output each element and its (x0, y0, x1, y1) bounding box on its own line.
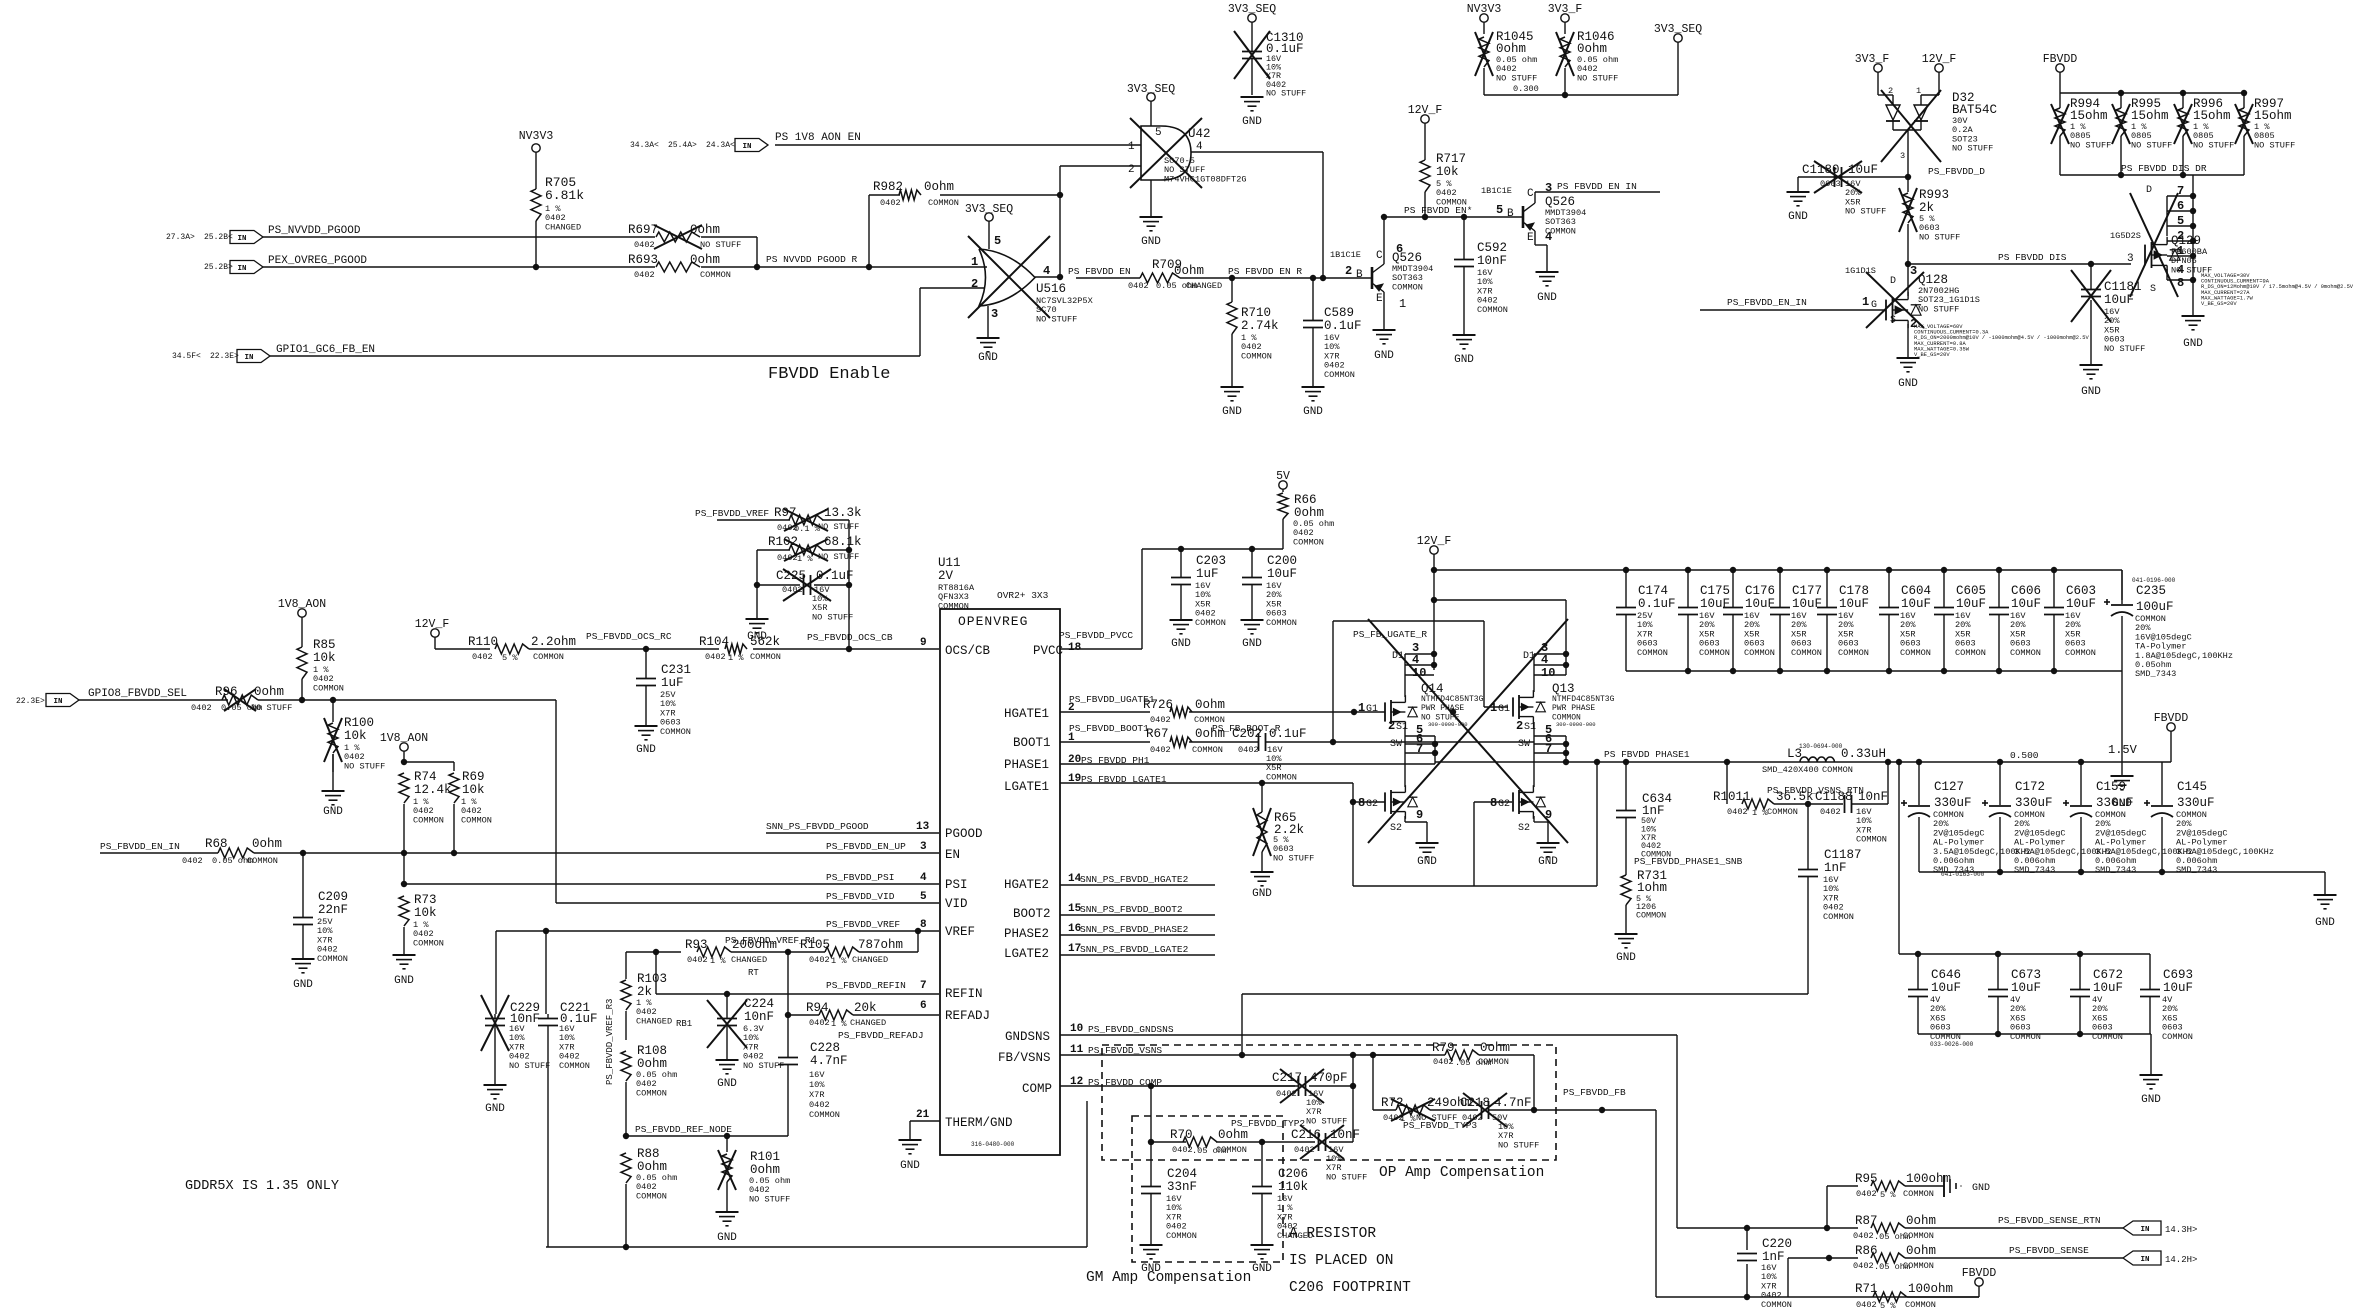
svg-text:PS_FBVDD_FB: PS_FBVDD_FB (1563, 1087, 1626, 1098)
node PS_FBVDD_EN* (1381, 205, 1523, 220)
svg-text:1G1D1S: 1G1D1S (1845, 266, 1876, 276)
svg-text:RT: RT (748, 968, 759, 978)
wire (701, 237, 760, 270)
svg-text:34.5F<: 34.5F< (172, 352, 201, 361)
svg-text:R85: R85 (313, 638, 336, 652)
IN connector PS_1V8_AON_EN (630, 132, 861, 152)
svg-text:SW: SW (1518, 739, 1530, 750)
svg-text:27.3A>: 27.3A> (166, 233, 195, 242)
svg-text:22nF: 22nF (318, 903, 348, 917)
svg-text:2k: 2k (1919, 201, 1934, 215)
svg-text:10uF: 10uF (2093, 981, 2123, 995)
svg-text:10nF: 10nF (1858, 790, 1888, 804)
svg-text:NO STUFF: NO STUFF (749, 1194, 790, 1204)
svg-text:GND: GND (1616, 952, 1636, 964)
svg-text:COMMON: COMMON (636, 1191, 667, 1201)
capacitor C634 (1616, 762, 1743, 869)
svg-text:R110: R110 (468, 635, 498, 649)
svg-text:3: 3 (920, 841, 927, 853)
svg-text:1 %: 1 % (710, 956, 726, 966)
wire (258, 697, 939, 903)
svg-text:HGATE2: HGATE2 (1004, 878, 1049, 892)
svg-text:22.3E>: 22.3E> (16, 697, 45, 706)
svg-text:BOOT2: BOOT2 (1013, 907, 1051, 921)
svg-text:0603: 0603 (1820, 179, 1841, 189)
svg-text:R94: R94 (806, 1001, 829, 1015)
svg-text:3V3_SEQ: 3V3_SEQ (1654, 23, 1702, 36)
svg-text:10: 10 (1070, 1023, 1083, 1035)
resistor R66 / power 5V (1276, 470, 1334, 549)
svg-text:25.2B>: 25.2B> (204, 263, 233, 272)
svg-text:0ohm: 0ohm (750, 1163, 780, 1177)
resistor R693 (628, 253, 731, 280)
svg-text:7: 7 (1416, 742, 1423, 756)
power flag 12V_F (stage) (1417, 535, 1452, 670)
svg-text:C228: C228 (810, 1041, 840, 1055)
svg-text:GND: GND (2081, 386, 2101, 398)
svg-text:5V: 5V (1276, 470, 1290, 483)
svg-text:C603: C603 (2066, 584, 2096, 598)
svg-text:C693: C693 (2163, 968, 2193, 982)
svg-text:COMMON: COMMON (636, 1088, 667, 1098)
svg-text:68.1k: 68.1k (824, 535, 862, 549)
svg-text:C159: C159 (2096, 780, 2126, 794)
svg-text:PS_FBVDD_VID: PS_FBVDD_VID (826, 891, 895, 902)
capacitor C225 (no stuff) (746, 569, 854, 643)
svg-text:2k: 2k (637, 985, 652, 999)
svg-text:7: 7 (2177, 184, 2184, 198)
svg-text:E: E (1376, 293, 1383, 305)
svg-text:C217: C217 (1272, 1071, 1302, 1085)
svg-text:GND: GND (1141, 236, 1161, 248)
svg-text:V_BE_GS=20V: V_BE_GS=20V (2201, 301, 2237, 307)
svg-text:Q526: Q526 (1392, 251, 1422, 265)
svg-text:CHANGED: CHANGED (731, 955, 767, 965)
svg-text:NO STUFF: NO STUFF (812, 612, 853, 622)
svg-text:14.3H>: 14.3H> (2165, 1225, 2197, 1235)
svg-text:10nF: 10nF (1330, 1128, 1360, 1142)
svg-text:NO STUFF: NO STUFF (1919, 232, 1960, 242)
svg-text:GDDR5X IS 1.35 ONLY: GDDR5X IS 1.35 ONLY (185, 1179, 339, 1194)
net PS_FBVDD_VREF wire (496, 919, 939, 1014)
capacitor C200 (1241, 549, 1298, 650)
svg-text:5: 5 (1155, 127, 1162, 139)
svg-text:PS_FBVDD_EN_UP: PS_FBVDD_EN_UP (826, 841, 906, 852)
svg-text:0402: 0402 (1853, 1261, 1874, 1271)
capacitor C605 (1934, 570, 1986, 671)
svg-text:10uF: 10uF (2011, 597, 2041, 611)
svg-text:COMMON: COMMON (1478, 1057, 1509, 1067)
svg-text:COMMON: COMMON (1241, 351, 1272, 361)
svg-text:3V3_F: 3V3_F (1855, 53, 1890, 66)
svg-text:0ohm: 0ohm (1218, 1128, 1248, 1142)
capacitor C145 (polarized) (2144, 762, 2274, 875)
resistor R72 (no stuff) / capacitor C218 (no stuff) (1373, 1055, 1605, 1150)
svg-text:10: 10 (1412, 666, 1426, 680)
svg-text:15ohm: 15ohm (2131, 109, 2169, 123)
net PS_FBVDD_REFIN (656, 980, 939, 997)
svg-text:SNN_PS_FBVDD_HGATE2: SNN_PS_FBVDD_HGATE2 (1080, 874, 1189, 885)
capacitor C228 (778, 1015, 848, 1136)
svg-text:10nF: 10nF (744, 1010, 774, 1024)
svg-text:PS_FB_UGATE_R: PS_FB_UGATE_R (1353, 629, 1427, 640)
node PS_FBVDD_DIS (1905, 252, 2134, 267)
svg-text:18: 18 (1068, 642, 1082, 654)
svg-text:0.1uF: 0.1uF (1638, 597, 1676, 611)
svg-text:0402: 0402 (1462, 1113, 1483, 1123)
resistor R96 (no stuff) (191, 685, 292, 713)
svg-text:PS FBVDD EN*: PS FBVDD EN* (1404, 205, 1472, 216)
svg-text:SMD_7343: SMD_7343 (2176, 865, 2217, 875)
svg-text:0402: 0402 (782, 585, 803, 595)
svg-text:130-0694-000: 130-0694-000 (1799, 743, 1843, 750)
capacitor C672 (2070, 954, 2123, 1042)
mosfet Q128 (no stuff) (1700, 264, 2089, 390)
capacitor C1180 (no stuff) (1787, 161, 1986, 223)
svg-text:12V_F: 12V_F (415, 618, 450, 631)
capacitor C216 (no stuff) (1262, 1125, 1367, 1182)
svg-text:COMMON: COMMON (1900, 648, 1931, 658)
resistor R1046 (no stuff) (1548, 3, 1619, 95)
resistor R101 (no stuff) (716, 1136, 791, 1244)
svg-text:GND: GND (1417, 856, 1437, 868)
svg-text:COMMON: COMMON (660, 727, 691, 737)
svg-text:PSI: PSI (945, 878, 968, 892)
svg-text:NO STUFF: NO STUFF (1498, 1140, 1539, 1150)
svg-text:1nF: 1nF (1762, 1250, 1785, 1264)
svg-text:6.81k: 6.81k (545, 188, 584, 203)
svg-text:0.33uH: 0.33uH (1841, 747, 1886, 761)
svg-text:787ohm: 787ohm (858, 938, 903, 952)
net PS_FB_UGATE_R wire (1333, 621, 1508, 742)
svg-text:SNN_PS_FBVDD_BOOT2: SNN_PS_FBVDD_BOOT2 (1080, 904, 1183, 915)
svg-text:D1: D1 (1523, 651, 1535, 662)
label GM Amp Compensation (1086, 1270, 1251, 1286)
svg-text:PS_FBVDD_OCS_CB: PS_FBVDD_OCS_CB (807, 632, 893, 643)
svg-text:R103: R103 (637, 972, 667, 986)
svg-text:10uF: 10uF (2104, 293, 2134, 307)
svg-text:1 %: 1 % (728, 653, 744, 663)
capacitor C646 (1908, 954, 1961, 1042)
svg-text:13: 13 (916, 821, 930, 833)
svg-text:0402: 0402 (1150, 715, 1171, 725)
svg-text:12V_F: 12V_F (1417, 535, 1452, 548)
svg-text:0ohm: 0ohm (1906, 1214, 1936, 1228)
svg-text:5 %: 5 % (502, 653, 518, 663)
IN connector GPIO1_GC6_FB_EN (172, 344, 375, 363)
svg-text:0.1uF: 0.1uF (1324, 319, 1362, 333)
svg-text:4: 4 (1541, 653, 1548, 667)
svg-text:1uF: 1uF (661, 676, 684, 690)
wire U42 pin1 (775, 144, 1141, 146)
svg-text:PS_FBVDD_OCS_RC: PS_FBVDD_OCS_RC (586, 631, 672, 642)
note A RESISTOR IS PLACED ON C206 FOOTPRINT (1289, 1226, 1411, 1296)
svg-text:IN: IN (742, 143, 751, 151)
svg-text:G2: G2 (1366, 799, 1378, 810)
svg-text:SNN_PS_FBVDD_LGATE2: SNN_PS_FBVDD_LGATE2 (1080, 944, 1189, 955)
svg-text:X7R: X7R (809, 1090, 824, 1100)
svg-text:C127: C127 (1934, 780, 1964, 794)
capacitor C203 (1170, 549, 1227, 650)
svg-text:C172: C172 (2015, 780, 2045, 794)
svg-text:1: 1 (1358, 701, 1365, 715)
svg-text:S: S (2150, 284, 2156, 295)
svg-text:PS_FBVDD_REFIN: PS_FBVDD_REFIN (826, 980, 906, 991)
svg-text:PS_FBVDD_REF_NODE: PS_FBVDD_REF_NODE (635, 1124, 732, 1135)
svg-text:PS_FBVDD_D: PS_FBVDD_D (1928, 166, 1985, 177)
svg-text:HGATE1: HGATE1 (1004, 707, 1049, 721)
IN connector PS_NVVDD_PGOOD (166, 225, 361, 244)
pin 21 THERM/GND ground (899, 1109, 941, 1172)
svg-text:R717: R717 (1436, 152, 1466, 166)
transistor Q526 A (1330, 217, 1433, 362)
resistor R87 / net PS_FBVDD_SENSE_RTN (1677, 1214, 2197, 1242)
svg-text:20k: 20k (854, 1001, 877, 1015)
svg-text:COMMON: COMMON (1744, 648, 1775, 658)
svg-text:7: 7 (1545, 742, 1552, 756)
diode D32 BAT54C (no stuff) (1855, 53, 1997, 177)
svg-text:GND: GND (2141, 1094, 2161, 1106)
capacitor C176 (1723, 570, 1775, 671)
wire FB to sense rail (1656, 1294, 1979, 1300)
svg-text:COMMON: COMMON (1324, 370, 1355, 380)
svg-text:D: D (1890, 276, 1896, 287)
capacitor C1188 (1815, 762, 1888, 845)
svg-text:0ohm: 0ohm (690, 223, 720, 237)
svg-text:S2: S2 (1518, 823, 1530, 834)
svg-text:0402: 0402 (1172, 1145, 1193, 1155)
svg-text:0402: 0402 (1856, 1189, 1877, 1199)
svg-text:1B1C1E: 1B1C1E (1330, 250, 1361, 260)
svg-text:SNN_PS_FBVDD_PHASE2: SNN_PS_FBVDD_PHASE2 (1080, 924, 1189, 935)
svg-text:4.7nF: 4.7nF (1494, 1096, 1532, 1110)
svg-text:GND: GND (636, 744, 656, 756)
svg-text:COMMON: COMMON (1905, 1300, 1936, 1310)
resistor R79 (1373, 1041, 1537, 1113)
svg-text:C204: C204 (1167, 1167, 1197, 1181)
svg-text:NO STUFF: NO STUFF (344, 761, 385, 771)
svg-text:GND: GND (323, 806, 343, 818)
svg-text:330uF: 330uF (1934, 796, 1972, 810)
svg-text:10uF: 10uF (1745, 597, 1775, 611)
svg-text:PS_FBVDD_REFADJ: PS_FBVDD_REFADJ (838, 1030, 924, 1041)
resistor R997 (no stuff) (2235, 97, 2295, 150)
svg-text:10uF: 10uF (2066, 597, 2096, 611)
svg-text:IN: IN (2140, 1256, 2149, 1264)
svg-text:COMMON: COMMON (559, 1061, 590, 1071)
svg-text:PWR PHASE: PWR PHASE (1421, 704, 1464, 713)
bottom VREF rail (546, 1101, 1087, 1250)
svg-text:5: 5 (2177, 214, 2184, 228)
svg-text:PWR PHASE: PWR PHASE (1552, 704, 1595, 713)
svg-text:GND: GND (1141, 1263, 1161, 1275)
svg-text:NO STUFF: NO STUFF (700, 240, 741, 250)
dashed box OP Amp Compensation (1102, 1045, 1556, 1160)
svg-text:0.1uF: 0.1uF (1269, 727, 1307, 741)
svg-text:3: 3 (991, 307, 998, 321)
svg-text:NO STUFF: NO STUFF (1577, 73, 1618, 83)
svg-text:SNN_PS_FBVDD_PGOOD: SNN_PS_FBVDD_PGOOD (766, 821, 869, 832)
svg-text:COMMON: COMMON (1637, 648, 1668, 658)
svg-text:041-0163-000: 041-0163-000 (1941, 871, 1985, 878)
svg-text:PS_FBVDD_GNDSNS: PS_FBVDD_GNDSNS (1088, 1024, 1174, 1035)
svg-text:PHASE1: PHASE1 (1004, 758, 1049, 772)
svg-text:C673: C673 (2011, 968, 2041, 982)
svg-text:C176: C176 (1745, 584, 1775, 598)
svg-text:C604: C604 (1901, 584, 1931, 598)
svg-text:10uF: 10uF (1931, 981, 1961, 995)
svg-text:4: 4 (1196, 141, 1203, 153)
svg-text:C220: C220 (1762, 1237, 1792, 1251)
svg-text:IN: IN (244, 354, 253, 362)
svg-text:COMMON: COMMON (700, 270, 731, 280)
svg-text:R710: R710 (1241, 306, 1271, 320)
svg-text:EN: EN (945, 848, 960, 862)
svg-text:SMD_7343: SMD_7343 (2135, 669, 2176, 679)
svg-text:PS FBVDD DIS DR: PS FBVDD DIS DR (2121, 163, 2207, 174)
power flag FBVDD (top) (2043, 53, 2247, 108)
net PS_FBVDD_VREF / resistor R97 (no stuff) (695, 506, 862, 649)
svg-text:562k: 562k (750, 635, 780, 649)
svg-text:PEX_OVREG_PGOOD: PEX_OVREG_PGOOD (268, 255, 367, 267)
power flag 1V8_AON / resistor R85 (278, 598, 344, 700)
svg-text:NO STUFF: NO STUFF (743, 1061, 784, 1071)
svg-text:1: 1 (1490, 701, 1497, 715)
svg-text:R79: R79 (1432, 1041, 1455, 1055)
svg-text:R726: R726 (1143, 698, 1173, 712)
svg-text:0.1 %: 0.1 % (794, 524, 821, 534)
svg-text:COMP: COMP (1022, 1082, 1052, 1096)
svg-text:033-0026-000: 033-0026-000 (1930, 1041, 1974, 1048)
svg-text:0402: 0402 (1820, 807, 1841, 817)
svg-text:COMMON: COMMON (1856, 835, 1887, 845)
capacitor C221 (538, 1001, 598, 1247)
svg-text:8: 8 (1490, 796, 1497, 810)
svg-text:NO STUFF: NO STUFF (2131, 140, 2172, 150)
ground (U516) (977, 338, 1000, 364)
svg-text:1uF: 1uF (1196, 567, 1219, 581)
resistor R731 (1615, 869, 1668, 964)
svg-text:C175: C175 (1700, 584, 1730, 598)
svg-text:PS FBVDD EN IN: PS FBVDD EN IN (1557, 181, 1637, 192)
svg-text:C206: C206 (1278, 1167, 1308, 1181)
resistor R95 (1827, 1172, 1951, 1228)
svg-text:10k: 10k (1436, 165, 1459, 179)
svg-text:GND: GND (1222, 406, 1242, 418)
svg-text:Q129: Q129 (2171, 234, 2201, 248)
svg-text:S1: S1 (1524, 722, 1536, 733)
svg-text:3V3_SEQ: 3V3_SEQ (1228, 3, 1276, 16)
svg-text:CHANGED: CHANGED (1277, 1231, 1313, 1241)
svg-text:C224: C224 (744, 997, 774, 1011)
capacitor C229 (no stuff) (481, 995, 550, 1115)
svg-text:COMMON: COMMON (809, 1110, 840, 1120)
svg-text:OPENVREG: OPENVREG (958, 614, 1028, 629)
svg-text:25.2B<: 25.2B< (204, 233, 233, 242)
svg-text:C231: C231 (661, 663, 691, 677)
svg-text:3V3_SEQ: 3V3_SEQ (965, 203, 1013, 216)
svg-text:B: B (1356, 269, 1363, 281)
svg-text:COMMON: COMMON (413, 815, 444, 825)
svg-text:0ohm: 0ohm (1496, 42, 1526, 56)
svg-text:NO STUFF: NO STUFF (818, 522, 859, 532)
svg-text:C606: C606 (2011, 584, 2041, 598)
svg-text:0402: 0402 (1853, 1231, 1874, 1241)
svg-text:R693: R693 (628, 253, 658, 267)
svg-text:COMMON: COMMON (1761, 1300, 1792, 1310)
svg-text:COMMON: COMMON (928, 198, 959, 208)
svg-text:0.500: 0.500 (2010, 750, 2039, 761)
capacitor C231 (635, 649, 692, 756)
svg-text:9: 9 (1545, 808, 1552, 822)
svg-text:R73: R73 (414, 893, 437, 907)
svg-text:R70: R70 (1170, 1128, 1193, 1142)
capacitor C604 (1879, 570, 1931, 671)
svg-text:25.4A>: 25.4A> (668, 141, 697, 150)
capacitor C1181 (no stuff) (2071, 264, 2145, 398)
mosfet Q129 (no stuff) (2110, 184, 2354, 350)
vertical label PS_FBVDD_VREF_R3 (605, 999, 615, 1085)
wire 12V_F to Q13 drain (1434, 600, 1569, 675)
svg-text:FB/VSNS: FB/VSNS (998, 1051, 1051, 1065)
svg-text:GND: GND (1242, 638, 1262, 650)
power flag FBVDD (output) (2154, 712, 2189, 762)
svg-text:0402: 0402 (472, 652, 493, 662)
svg-text:14.2H>: 14.2H> (2165, 1255, 2197, 1265)
svg-text:0402: 0402 (1727, 807, 1748, 817)
svg-text:NV3V3: NV3V3 (1467, 3, 1502, 16)
svg-text:VREF: VREF (945, 925, 975, 939)
svg-text:2: 2 (1888, 86, 1893, 96)
net PS_FBVDD_PSI (826, 872, 927, 884)
svg-text:R101: R101 (750, 1150, 780, 1164)
svg-text:0402: 0402 (1856, 1300, 1877, 1310)
svg-text:COMMON: COMMON (2010, 648, 2041, 658)
svg-text:PS NVVDD PGOOD R: PS NVVDD PGOOD R (766, 254, 858, 265)
svg-text:C202: C202 (1232, 727, 1262, 741)
svg-text:COMMON: COMMON (1195, 618, 1226, 628)
svg-text:9: 9 (920, 637, 927, 649)
svg-text:GND: GND (900, 1160, 920, 1172)
svg-text:300-0900-000: 300-0900-000 (1556, 721, 1596, 728)
svg-text:2: 2 (1345, 264, 1352, 278)
svg-text:COMMON: COMMON (313, 683, 344, 693)
svg-text:COMMON: COMMON (1293, 537, 1324, 547)
svg-text:E: E (1527, 232, 1534, 244)
svg-text:1 %: 1 % (831, 956, 847, 966)
svg-text:0ohm: 0ohm (924, 180, 954, 194)
svg-text:Q526: Q526 (1545, 195, 1575, 209)
svg-text:1V8_AON: 1V8_AON (278, 598, 326, 611)
svg-text:2: 2 (971, 277, 978, 291)
svg-text:330uF: 330uF (2096, 796, 2134, 810)
capacitor C159 (polarized) (2063, 762, 2193, 875)
net PS_FBVDD_EN_IN / resistor R68 (100, 837, 939, 866)
svg-text:4: 4 (920, 872, 927, 884)
svg-text:3: 3 (2127, 253, 2134, 265)
svg-text:1 %: 1 % (831, 1019, 847, 1029)
capacitor C206 (1251, 1142, 1314, 1275)
resistor R100 (no stuff) (322, 700, 386, 818)
svg-text:Q14: Q14 (1421, 682, 1444, 696)
resistor R103 (621, 972, 672, 1040)
svg-text:VID: VID (945, 897, 968, 911)
svg-text:NO STUFF: NO STUFF (509, 1061, 550, 1071)
svg-text:0ohm: 0ohm (1906, 1244, 1936, 1258)
capacitor C209 (292, 853, 349, 991)
svg-text:COMMON: COMMON (247, 856, 278, 866)
svg-text:10uF: 10uF (1848, 163, 1878, 177)
